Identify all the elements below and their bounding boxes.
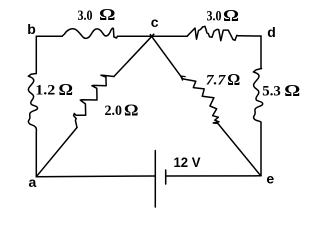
svg-text:3.0: 3.0 xyxy=(207,9,222,25)
node label d xyxy=(267,24,276,40)
wire b to resistor (top-left horizontal) xyxy=(36,35,62,37)
svg-text:Ω: Ω xyxy=(124,100,139,119)
svg-text:5.3: 5.3 xyxy=(262,84,281,100)
resistor 1.2 ohm squiggle (left) xyxy=(28,74,37,134)
svg-text:b: b xyxy=(27,21,36,37)
svg-text:1.2: 1.2 xyxy=(35,83,55,99)
label 7.7 ohm xyxy=(206,70,241,89)
resistor 3.0 ohm (b-c) wavy meander xyxy=(62,28,118,38)
svg-text:e: e xyxy=(266,170,274,186)
svg-text:3.0: 3.0 xyxy=(78,8,93,24)
label 3.0 ohm (c-d) xyxy=(207,6,240,25)
wire node a to battery (bottom) xyxy=(36,175,155,178)
wire resistor to node d (top) xyxy=(239,35,262,37)
node label a xyxy=(29,174,37,190)
wire resistor to node c (diagonal) xyxy=(114,34,154,76)
node label c xyxy=(151,14,159,30)
svg-text:Ω: Ω xyxy=(99,5,116,24)
label 12 V xyxy=(174,154,202,170)
node label b xyxy=(27,21,36,37)
wire node a to 2.0 ohm resistor (diagonal) xyxy=(36,128,77,177)
svg-text:7.7: 7.7 xyxy=(206,73,226,89)
wire node c to 7.7 ohm resistor (diagonal) xyxy=(150,35,183,79)
wire node c to resistor (top-right) xyxy=(152,35,187,37)
wire resistor to node e (diagonal) xyxy=(218,123,261,175)
svg-text:Ω: Ω xyxy=(59,80,74,99)
resistor 7.7 ohm staircase zigzag (c-e diagonal) xyxy=(181,76,219,123)
resistor 3.0 ohm (c-d) zigzag xyxy=(187,26,239,40)
wire resistor to node a (left side) xyxy=(35,133,37,177)
wire b down to resistor (left side) xyxy=(35,36,37,73)
wire resistor to node e (right side) xyxy=(260,123,262,176)
label 3.0 ohm (b-c) xyxy=(78,5,116,24)
wire resistor to node c (top) xyxy=(118,35,153,37)
resistor 2.0 ohm staircase zigzag (a-c diagonal) xyxy=(74,75,114,127)
svg-text:c: c xyxy=(151,14,159,30)
battery 12V short plate xyxy=(165,170,167,184)
svg-text:d: d xyxy=(267,24,276,40)
label 1.2 ohm xyxy=(35,80,73,99)
svg-text:Ω: Ω xyxy=(227,70,240,89)
label 2.0 ohm xyxy=(105,100,139,119)
wire node d down to resistor (right side) xyxy=(260,36,262,69)
battery 12V long plate xyxy=(154,151,156,208)
svg-text:Ω: Ω xyxy=(284,81,300,100)
resistor 5.3 ohm squiggle (right) xyxy=(253,69,262,123)
svg-text:12 V: 12 V xyxy=(174,154,202,170)
node label e xyxy=(266,170,274,186)
wire battery to node e (bottom) xyxy=(166,175,261,177)
svg-text:2.0: 2.0 xyxy=(105,103,123,119)
svg-text:Ω: Ω xyxy=(223,6,239,25)
svg-text:a: a xyxy=(29,174,37,190)
label 5.3 ohm xyxy=(262,81,300,100)
